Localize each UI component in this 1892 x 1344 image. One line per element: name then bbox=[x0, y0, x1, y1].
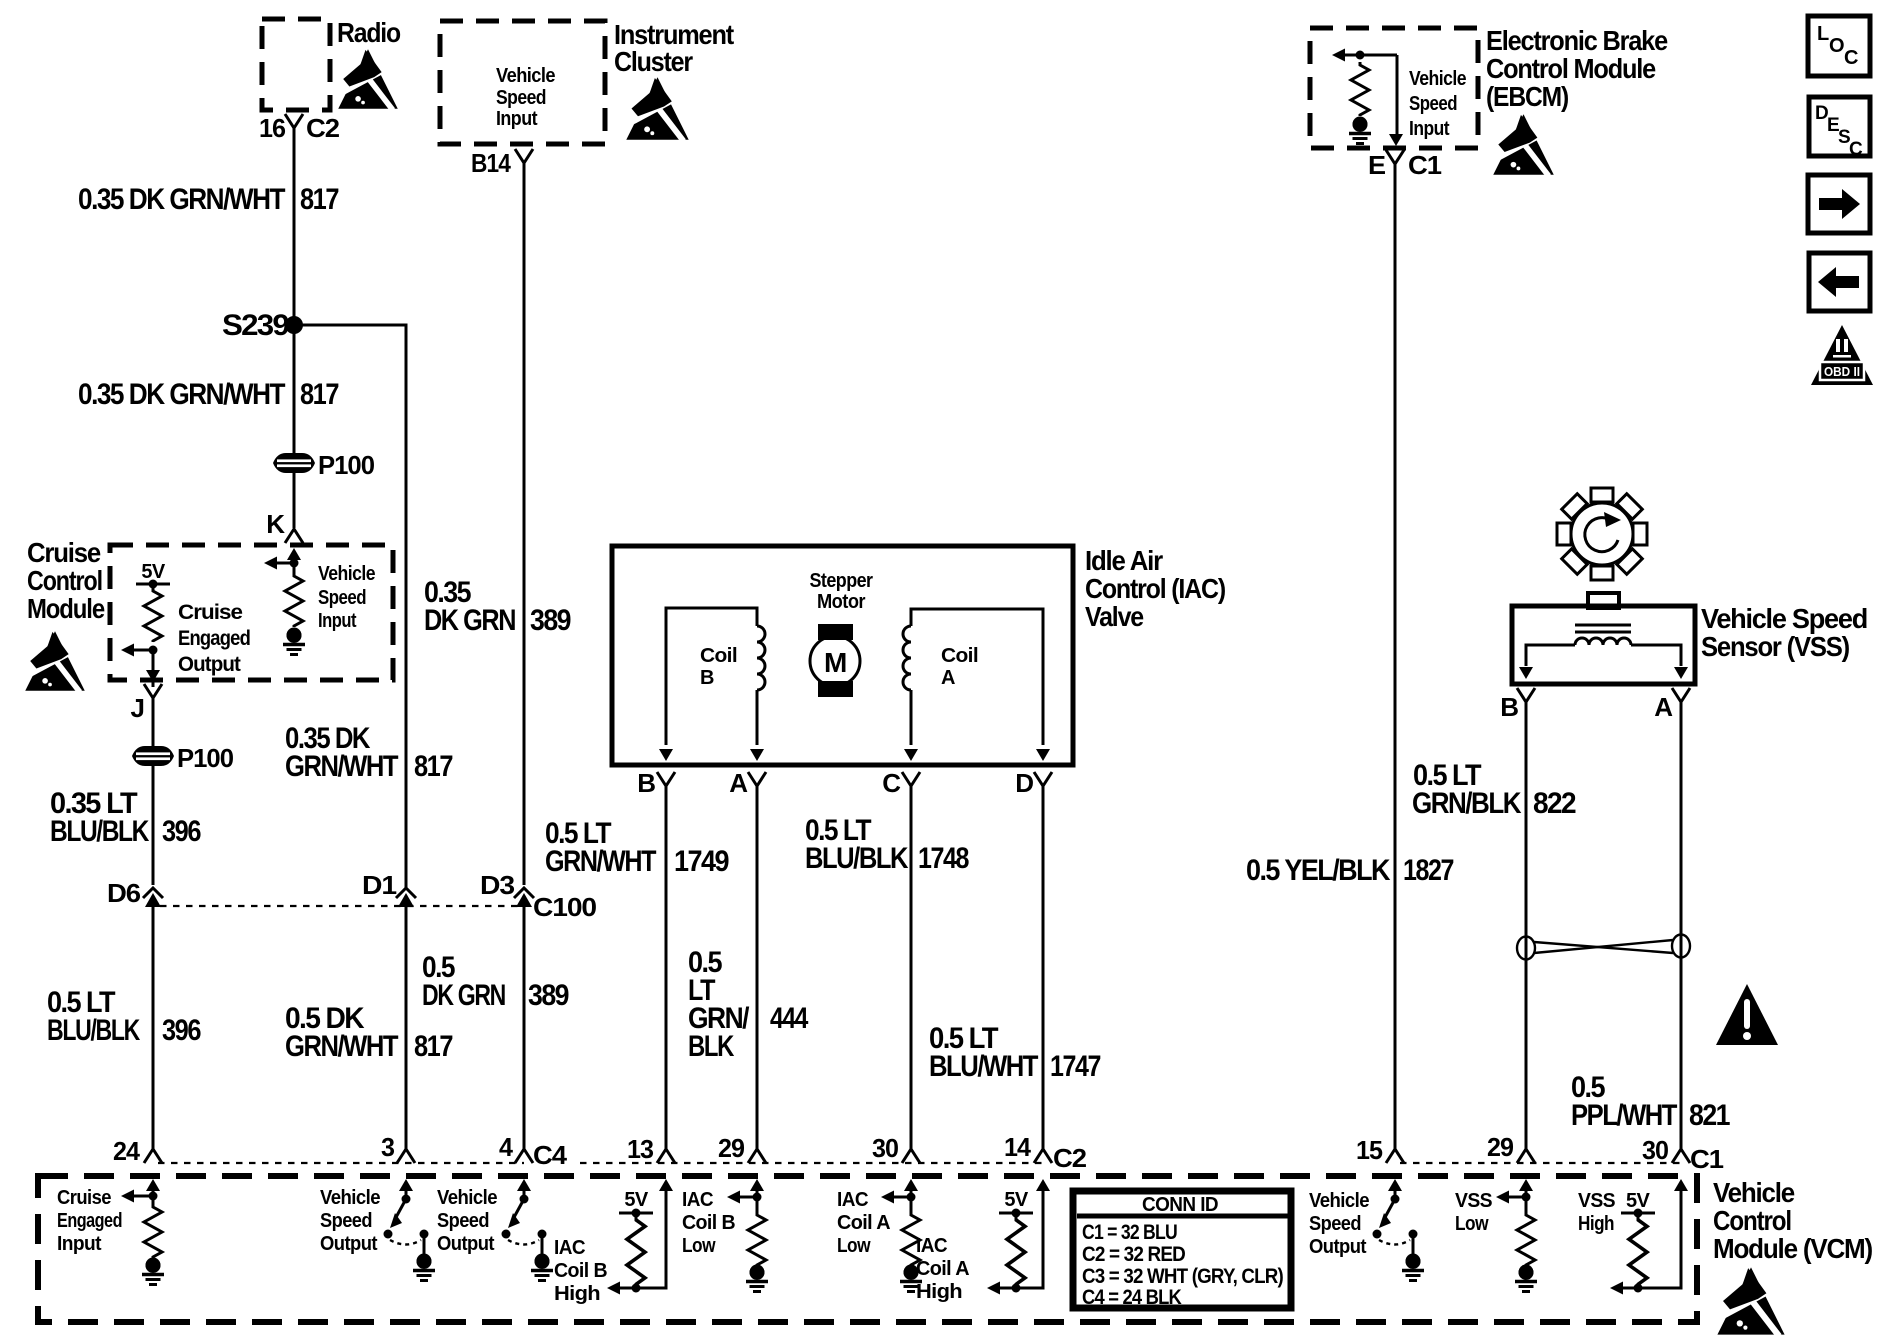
svg-text:VSS: VSS bbox=[1455, 1190, 1492, 1212]
svg-text:Stepper: Stepper bbox=[810, 570, 874, 592]
grommet P100 (cruise wire) bbox=[132, 746, 174, 766]
wire D3 to pin 4 bbox=[523, 907, 526, 1149]
coil A bbox=[911, 609, 1043, 745]
svg-text:C1: C1 bbox=[1690, 1144, 1724, 1174]
wire D6 to pin 24 bbox=[152, 907, 155, 1149]
svg-text:389: 389 bbox=[530, 604, 571, 637]
svg-text:Speed: Speed bbox=[318, 587, 366, 609]
5V supply bar (pin 14) bbox=[999, 1212, 1033, 1215]
svg-text:817: 817 bbox=[414, 1030, 453, 1063]
IAC pin D fork bbox=[1034, 772, 1052, 786]
svg-text:High: High bbox=[1578, 1213, 1614, 1235]
pin B14 fork bbox=[515, 149, 533, 163]
svg-text:Speed: Speed bbox=[437, 1210, 489, 1232]
connector C2 dashed line bbox=[580, 1162, 1043, 1164]
EBCM box bbox=[1310, 28, 1478, 148]
switch blade (pin 15) bbox=[1383, 1199, 1395, 1221]
svg-text:Vehicle: Vehicle bbox=[320, 1187, 380, 1209]
wire to ground (pin 15 switch) bbox=[1412, 1237, 1415, 1254]
svg-text:Idle Air: Idle Air bbox=[1085, 545, 1163, 576]
VSS core lines bbox=[1575, 624, 1631, 627]
VSS low block (pin 29 C1) bbox=[1519, 1179, 1533, 1191]
svg-text:4: 4 bbox=[499, 1132, 513, 1162]
svg-text:C1: C1 bbox=[1408, 150, 1442, 180]
svg-text:B: B bbox=[700, 667, 714, 689]
switch contact (pin 3) bbox=[384, 1230, 393, 1239]
arrow IAC coil A high bbox=[987, 1282, 1000, 1295]
svg-text:821: 821 bbox=[1689, 1099, 1730, 1132]
5V supply bar (pin 13) bbox=[619, 1212, 653, 1215]
switch pivot node (pin 4) bbox=[520, 1195, 529, 1204]
svg-text:Coil A: Coil A bbox=[916, 1258, 969, 1280]
svg-text:D3: D3 bbox=[480, 870, 515, 900]
wire K into box bbox=[293, 556, 296, 573]
switch contact (pin 4) bbox=[502, 1230, 511, 1239]
wire from J to P100 bbox=[152, 698, 155, 746]
svg-text:C: C bbox=[1849, 139, 1863, 160]
pin 30 fork bbox=[902, 1149, 920, 1163]
svg-text:B: B bbox=[637, 768, 655, 798]
left arrow button bbox=[1809, 253, 1870, 311]
switch pivot node (pin 15) bbox=[1391, 1195, 1400, 1204]
svg-text:B: B bbox=[1500, 692, 1518, 722]
svg-text:OBD II: OBD II bbox=[1824, 364, 1860, 379]
DESC button bbox=[1809, 97, 1870, 156]
svg-text:Input: Input bbox=[57, 1233, 102, 1255]
warning triangle bbox=[1716, 984, 1778, 1045]
connector C100 D1 bbox=[396, 888, 416, 907]
svg-text:Engaged: Engaged bbox=[57, 1210, 122, 1232]
CONN ID table bbox=[1073, 1191, 1291, 1308]
svg-text:29: 29 bbox=[718, 1133, 745, 1163]
Instrument Cluster box bbox=[440, 21, 605, 144]
switch contact 2 (pin 4) bbox=[538, 1230, 547, 1239]
ground IAC coil A low bbox=[904, 1265, 919, 1280]
svg-text:C4: C4 bbox=[533, 1140, 568, 1170]
svg-text:Output: Output bbox=[178, 653, 241, 676]
OBD II triangle bbox=[1811, 325, 1873, 385]
VCM ESD symbol bbox=[1716, 1267, 1785, 1336]
EBCM exit wire bbox=[1396, 55, 1399, 134]
wire pin 29 into VCM bbox=[756, 1188, 759, 1212]
arrow VSS low bbox=[1504, 1196, 1526, 1199]
VSS pickup coil bbox=[1575, 638, 1631, 645]
VSS mounting tab bbox=[1588, 593, 1619, 608]
svg-text:DK GRN: DK GRN bbox=[422, 979, 505, 1012]
svg-text:C: C bbox=[882, 768, 901, 798]
connector C1 dashed line bbox=[1400, 1162, 1681, 1164]
resistor VSS low bbox=[1517, 1212, 1535, 1266]
right arrow button bbox=[1808, 175, 1870, 233]
svg-text:15: 15 bbox=[1356, 1135, 1383, 1165]
wire pin 30 into VCM bbox=[910, 1188, 913, 1212]
wire pin 3 into VCM bbox=[405, 1188, 408, 1199]
svg-text:D: D bbox=[1015, 768, 1033, 798]
wire 817 from S239 down to P100 bbox=[293, 325, 296, 528]
svg-text:M: M bbox=[824, 647, 846, 678]
node IAC coil B low bbox=[753, 1193, 762, 1202]
svg-text:Coil: Coil bbox=[941, 645, 978, 667]
svg-text:Speed: Speed bbox=[1309, 1213, 1361, 1235]
node IAC coil B high bbox=[632, 1284, 641, 1293]
node IAC coil A high bbox=[1012, 1284, 1021, 1293]
wire to ground (pin 4 switch) bbox=[541, 1237, 544, 1254]
EBCM ground bbox=[1353, 117, 1368, 132]
svg-text:Coil A: Coil A bbox=[837, 1212, 890, 1234]
svg-text:Control (IAC): Control (IAC) bbox=[1085, 573, 1225, 604]
Radio module box bbox=[262, 19, 330, 110]
svg-text:0.35 DK GRN/WHT: 0.35 DK GRN/WHT bbox=[78, 183, 285, 216]
svg-text:396: 396 bbox=[162, 815, 201, 848]
wire D1 to pin 3 bbox=[405, 907, 408, 1149]
wire pin 14 into VCM bbox=[994, 1188, 1043, 1288]
switch throw arc (pin 3) bbox=[390, 1240, 421, 1245]
svg-text:817: 817 bbox=[414, 750, 453, 783]
svg-text:C: C bbox=[1844, 47, 1858, 69]
node VSS high bbox=[1634, 1284, 1643, 1293]
wire pin 29 C1 into VCM bbox=[1525, 1188, 1528, 1212]
ground VSS low bbox=[1519, 1265, 1534, 1280]
arrow cruise engaged output bbox=[128, 649, 153, 652]
svg-text:Input: Input bbox=[496, 108, 538, 130]
svg-text:GRN/WHT: GRN/WHT bbox=[285, 750, 398, 783]
svg-text:Output: Output bbox=[320, 1233, 378, 1255]
EBCM resistor bbox=[1351, 62, 1369, 116]
svg-text:389: 389 bbox=[528, 979, 569, 1012]
svg-text:GRN/WHT: GRN/WHT bbox=[285, 1030, 398, 1063]
VSS pin B fork bbox=[1517, 688, 1535, 702]
ground vehicle speed input (cruise) bbox=[287, 628, 302, 643]
arrow VSS high bbox=[1610, 1282, 1623, 1295]
svg-text:S239: S239 bbox=[222, 309, 289, 342]
splice S239 bbox=[285, 316, 303, 334]
wire pin 15 into VCM bbox=[1394, 1188, 1397, 1199]
5V supply bar bbox=[136, 583, 170, 586]
resistor IAC coil A low bbox=[902, 1212, 920, 1266]
svg-text:C4 = 24 BLK: C4 = 24 BLK bbox=[1082, 1286, 1182, 1309]
svg-text:VSS: VSS bbox=[1578, 1190, 1615, 1212]
coil A exit arrows bbox=[904, 749, 918, 761]
svg-text:Module: Module bbox=[27, 593, 105, 624]
Cruise Control Module ESD symbol bbox=[24, 631, 85, 692]
wire 817 from radio 16 to S239 bbox=[293, 128, 296, 325]
wire to ground (pin 3 switch) bbox=[423, 1237, 426, 1254]
VSS high block (pin 30 C1) bbox=[1674, 1179, 1688, 1191]
svg-text:822: 822 bbox=[1533, 787, 1576, 820]
svg-text:Radio: Radio bbox=[337, 17, 401, 48]
pin J fork bbox=[144, 684, 162, 698]
arrow vehicle speed input bbox=[272, 562, 294, 565]
svg-text:Output: Output bbox=[1309, 1236, 1367, 1258]
wire IAC D to pin 14 bbox=[1042, 786, 1045, 1149]
switch contact (pin 15) bbox=[1373, 1230, 1382, 1239]
resistor cruise engaged output bbox=[144, 588, 162, 642]
resistor IAC coil A high pull-up bbox=[1007, 1216, 1025, 1286]
svg-text:Engaged: Engaged bbox=[178, 627, 250, 650]
5V supply bar (pin 30 C1) bbox=[1621, 1212, 1655, 1215]
LOC button bbox=[1808, 16, 1870, 76]
svg-text:Vehicle: Vehicle bbox=[496, 65, 555, 87]
svg-text:1749: 1749 bbox=[674, 845, 729, 878]
arrow IAC coil B high bbox=[607, 1282, 620, 1295]
IAC coil A low block (pin 30) bbox=[904, 1179, 918, 1191]
pin 24 fork bbox=[144, 1149, 162, 1163]
svg-text:Valve: Valve bbox=[1085, 601, 1144, 632]
svg-text:IAC: IAC bbox=[837, 1189, 868, 1211]
wire branch from S239 to D1 column bbox=[294, 325, 406, 890]
svg-text:Low: Low bbox=[837, 1235, 871, 1257]
wire pin 30 C1 into VCM bbox=[1617, 1188, 1681, 1288]
svg-text:IAC: IAC bbox=[916, 1235, 947, 1257]
svg-text:Coil B: Coil B bbox=[682, 1212, 735, 1234]
svg-text:Control: Control bbox=[1713, 1205, 1791, 1236]
connector C100 D3 bbox=[514, 888, 534, 907]
svg-text:Speed: Speed bbox=[320, 1210, 372, 1232]
svg-text:E: E bbox=[1368, 150, 1386, 180]
VCM box bbox=[38, 1176, 1697, 1322]
svg-text:J: J bbox=[131, 693, 144, 723]
svg-text:Coil: Coil bbox=[700, 645, 737, 667]
svg-text:5V: 5V bbox=[1626, 1190, 1651, 1212]
wire pin 13 into VCM bbox=[614, 1188, 666, 1288]
ground IAC coil B low bbox=[750, 1265, 765, 1280]
pin 14 fork bbox=[1034, 1149, 1052, 1163]
svg-text:O: O bbox=[1829, 35, 1844, 57]
svg-text:0.5 YEL/BLK: 0.5 YEL/BLK bbox=[1246, 854, 1391, 887]
coil B exit arrows bbox=[659, 749, 673, 761]
wire from node down to J bbox=[152, 650, 155, 687]
Radio ESD symbol bbox=[337, 49, 398, 110]
svg-text:High: High bbox=[554, 1283, 600, 1305]
exit arrow at J bbox=[146, 670, 160, 682]
svg-text:396: 396 bbox=[162, 1014, 201, 1047]
svg-text:817: 817 bbox=[300, 183, 339, 216]
svg-text:5V: 5V bbox=[624, 1189, 649, 1211]
pin 13 fork bbox=[657, 1149, 675, 1163]
svg-text:A: A bbox=[729, 768, 748, 798]
switch contact 2 (pin 15) bbox=[1409, 1230, 1418, 1239]
svg-text:Vehicle: Vehicle bbox=[1409, 68, 1466, 90]
IAC pin A fork bbox=[748, 772, 766, 786]
pin E C1 fork bbox=[1386, 150, 1404, 164]
node IAC coil A low bbox=[907, 1193, 916, 1202]
svg-text:DK GRN: DK GRN bbox=[424, 604, 515, 637]
svg-text:Input: Input bbox=[318, 610, 357, 632]
pin K fork bbox=[285, 529, 303, 543]
wire IAC C to pin 30 bbox=[910, 786, 913, 1149]
svg-text:GRN/BLK: GRN/BLK bbox=[1412, 787, 1522, 820]
VSS pin A fork bbox=[1672, 688, 1690, 702]
svg-text:P100: P100 bbox=[318, 450, 375, 480]
svg-text:Vehicle: Vehicle bbox=[1713, 1177, 1795, 1208]
switch throw arc (pin 15) bbox=[1379, 1240, 1410, 1245]
svg-text:5V: 5V bbox=[1004, 1189, 1029, 1211]
resistor cruise engaged input bbox=[144, 1204, 162, 1258]
svg-text:29: 29 bbox=[1487, 1132, 1514, 1162]
svg-text:B14: B14 bbox=[471, 148, 511, 178]
pin 30 C1 fork bbox=[1672, 1149, 1690, 1163]
resistor vehicle speed input (cruise) bbox=[285, 573, 303, 627]
svg-text:Electronic Brake: Electronic Brake bbox=[1486, 25, 1668, 56]
EBCM ESD symbol bbox=[1492, 114, 1554, 176]
IAC coil B low block (pin 29) bbox=[750, 1179, 764, 1191]
svg-text:3: 3 bbox=[381, 1132, 395, 1162]
svg-text:C100: C100 bbox=[533, 892, 597, 922]
node cruise engaged input bbox=[149, 1192, 158, 1201]
ground (pin 3 switch) bbox=[417, 1254, 432, 1269]
wire VSS B to pin 29 bbox=[1525, 700, 1528, 1149]
wire VSS A to pin 30 bbox=[1680, 700, 1683, 1149]
coil B bbox=[666, 608, 757, 745]
arrow cruise engaged input bbox=[130, 1195, 153, 1198]
Cruise Control Module box bbox=[110, 545, 393, 680]
svg-text:Low: Low bbox=[682, 1235, 716, 1257]
svg-text:Vehicle: Vehicle bbox=[437, 1187, 497, 1209]
svg-text:817: 817 bbox=[300, 378, 339, 411]
Radio pin 16 C2 fork bbox=[285, 114, 303, 128]
wire B14 down to D3 bbox=[523, 163, 526, 885]
wire to D6 bbox=[152, 766, 155, 885]
gear rotation arrow bbox=[1585, 518, 1618, 552]
ground (pin 15 switch) bbox=[1406, 1254, 1421, 1269]
pin 3 fork bbox=[397, 1149, 415, 1163]
Instrument Cluster ESD symbol bbox=[625, 77, 689, 141]
svg-text:C1 = 32 BLU: C1 = 32 BLU bbox=[1082, 1221, 1177, 1244]
svg-text:13: 13 bbox=[627, 1134, 654, 1164]
resistor IAC coil B high pull-up bbox=[627, 1216, 645, 1286]
svg-text:Cruise: Cruise bbox=[178, 601, 242, 624]
vehicle speed output switch (pin 4) bbox=[517, 1179, 531, 1191]
vehicle speed output switch (pin 15) bbox=[1388, 1179, 1402, 1191]
svg-text:1827: 1827 bbox=[1403, 854, 1454, 887]
svg-text:C2: C2 bbox=[306, 113, 340, 143]
svg-text:24: 24 bbox=[113, 1136, 140, 1166]
svg-text:Speed: Speed bbox=[496, 87, 546, 109]
wire IAC A to pin 29 bbox=[756, 786, 759, 1149]
svg-text:IAC: IAC bbox=[682, 1189, 713, 1211]
svg-text:A: A bbox=[941, 667, 955, 689]
cruise engaged input block bbox=[146, 1179, 160, 1191]
wire EBCM to pin 15 bbox=[1394, 163, 1397, 1149]
IAC pin B fork bbox=[657, 772, 675, 786]
wire IAC B to pin 13 bbox=[665, 786, 668, 1149]
stepper motor symbol bbox=[818, 624, 853, 640]
svg-text:444: 444 bbox=[770, 1002, 809, 1035]
node vehicle speed input bbox=[290, 559, 299, 568]
arrow IAC coil B low bbox=[735, 1196, 757, 1199]
VSS reluctor gear bbox=[1557, 488, 1647, 580]
grommet P100 (radio wire) bbox=[273, 453, 315, 473]
svg-text:Cruise: Cruise bbox=[27, 537, 101, 568]
svg-text:BLU/BLK: BLU/BLK bbox=[50, 815, 150, 848]
IAC coil B high block (pin 13) bbox=[659, 1179, 673, 1191]
EBCM vehicle speed input arrow bbox=[1340, 54, 1397, 57]
svg-text:Vehicle: Vehicle bbox=[318, 563, 375, 585]
svg-text:Vehicle: Vehicle bbox=[1309, 1190, 1369, 1212]
svg-text:14: 14 bbox=[1004, 1132, 1031, 1162]
vehicle speed output switch (pin 3) bbox=[399, 1179, 413, 1191]
node cruise engaged output bbox=[149, 646, 158, 655]
svg-text:Cruise: Cruise bbox=[57, 1187, 111, 1209]
svg-text:K: K bbox=[266, 509, 285, 539]
svg-text:BLU/WHT: BLU/WHT bbox=[929, 1050, 1038, 1083]
connector C4 dashed line bbox=[158, 1162, 524, 1164]
VSS internal wires bbox=[1526, 645, 1575, 666]
vehicle speed input entry arrow bbox=[287, 548, 301, 560]
pin 29 C1 fork bbox=[1517, 1149, 1535, 1163]
svg-text:16: 16 bbox=[259, 113, 286, 143]
svg-text:BLK: BLK bbox=[688, 1030, 735, 1063]
IAC valve box bbox=[612, 546, 1073, 765]
connector C100 D6 bbox=[143, 888, 163, 907]
svg-text:30: 30 bbox=[1642, 1135, 1669, 1165]
svg-text:D6: D6 bbox=[107, 878, 141, 908]
resistor VSS high pull-up bbox=[1629, 1216, 1647, 1286]
svg-text:CONN ID: CONN ID bbox=[1142, 1194, 1218, 1216]
svg-text:1747: 1747 bbox=[1050, 1050, 1101, 1083]
pin 29 fork bbox=[748, 1149, 766, 1163]
ground (pin 4 switch) bbox=[535, 1254, 550, 1269]
svg-text:Input: Input bbox=[1409, 118, 1450, 140]
svg-text:C2 = 32 RED: C2 = 32 RED bbox=[1082, 1243, 1186, 1266]
svg-text:C2: C2 bbox=[1053, 1143, 1087, 1173]
ground cruise engaged input bbox=[146, 1258, 161, 1273]
resistor IAC coil B low bbox=[748, 1212, 766, 1266]
svg-text:Coil B: Coil B bbox=[554, 1260, 607, 1282]
arrow IAC coil A low bbox=[889, 1196, 911, 1199]
svg-text:Module (VCM): Module (VCM) bbox=[1713, 1233, 1872, 1264]
svg-text:(EBCM): (EBCM) bbox=[1486, 81, 1568, 112]
svg-text:Cluster: Cluster bbox=[614, 46, 693, 77]
svg-text:Low: Low bbox=[1455, 1213, 1489, 1235]
switch throw arc (pin 4) bbox=[508, 1240, 539, 1245]
wire pin 24 into VCM bbox=[152, 1188, 155, 1204]
svg-text:Output: Output bbox=[437, 1233, 495, 1255]
svg-text:30: 30 bbox=[872, 1133, 899, 1163]
switch pivot node (pin 3) bbox=[402, 1195, 411, 1204]
svg-text:GRN/WHT: GRN/WHT bbox=[545, 845, 656, 878]
switch blade (pin 3) bbox=[394, 1199, 406, 1221]
svg-text:C3 = 32 WHT (GRY, CLR): C3 = 32 WHT (GRY, CLR) bbox=[1082, 1265, 1283, 1288]
node VSS low bbox=[1522, 1193, 1531, 1202]
pin 4 fork bbox=[515, 1149, 533, 1163]
svg-text:P100: P100 bbox=[177, 743, 234, 773]
svg-text:1748: 1748 bbox=[918, 842, 969, 875]
svg-text:BLU/BLK: BLU/BLK bbox=[805, 842, 909, 875]
switch blade (pin 4) bbox=[512, 1199, 524, 1221]
svg-text:IAC: IAC bbox=[554, 1237, 585, 1259]
twisted pair symbol bbox=[1517, 935, 1690, 960]
svg-text:Speed: Speed bbox=[1409, 93, 1457, 115]
IAC coil A high block (pin 14) bbox=[1036, 1179, 1050, 1191]
svg-text:PPL/WHT: PPL/WHT bbox=[1571, 1099, 1677, 1132]
IAC pin C fork bbox=[902, 772, 920, 786]
C100 dashed line bbox=[160, 905, 520, 907]
pin 15 fork bbox=[1386, 1149, 1404, 1163]
switch contact 2 (pin 3) bbox=[420, 1230, 429, 1239]
svg-text:Control: Control bbox=[27, 565, 102, 596]
svg-text:High: High bbox=[916, 1281, 962, 1303]
svg-text:Motor: Motor bbox=[817, 591, 866, 613]
svg-text:Control Module: Control Module bbox=[1486, 53, 1656, 84]
svg-text:0.35 DK GRN/WHT: 0.35 DK GRN/WHT bbox=[78, 378, 285, 411]
svg-text:Sensor (VSS): Sensor (VSS) bbox=[1701, 631, 1849, 662]
svg-text:Vehicle Speed: Vehicle Speed bbox=[1701, 603, 1867, 634]
svg-text:D1: D1 bbox=[362, 870, 397, 900]
VSS box bbox=[1512, 606, 1695, 684]
svg-text:BLU/BLK: BLU/BLK bbox=[47, 1014, 141, 1047]
svg-text:A: A bbox=[1654, 692, 1673, 722]
